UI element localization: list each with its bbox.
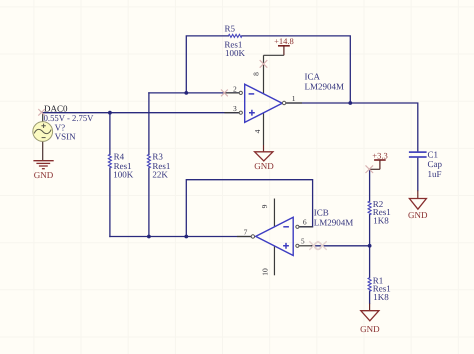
no-ERC marker +3.3 [366,165,374,173]
resistor R4 [108,154,111,168]
svg-text:DAC0: DAC0 [44,103,68,113]
svg-text:LM2904M: LM2904M [305,81,345,91]
pin 8 line [263,55,265,94]
svg-text:R5: R5 [225,24,236,34]
wire junction to R1 to GND [369,246,371,304]
wire R3 vertical branch [148,93,150,237]
power port +3.3 [370,150,388,169]
junction R4/DAC0 [108,111,112,115]
no-ERC markers pin 5 [309,241,326,250]
power stem to GND (C1) [417,191,419,199]
resistor R1 [368,278,371,292]
svg-text:ICA: ICA [305,72,321,82]
power stem to GND (R1) [369,304,371,311]
svg-text:7: 7 [244,227,248,236]
ground (earth) below VSIN [33,161,53,169]
svg-text:C1: C1 [428,150,439,160]
svg-text:GND: GND [408,210,428,220]
pin 1 stub [286,102,302,104]
wire bottom net to pin7 of ICB [110,236,251,238]
source V? VSIN body [33,113,53,161]
svg-text:VSIN: VSIN [55,132,77,142]
svg-text:22K: 22K [152,170,168,180]
ground (power) below C1 [409,199,426,210]
svg-text:100K: 100K [225,48,246,58]
svg-text:1K8: 1K8 [373,292,389,302]
power port +14.8 [264,36,294,56]
wire R5 left leg [186,36,228,93]
svg-text:GND: GND [34,170,54,180]
capacitor C1 [409,152,427,157]
pin 10 line [273,246,275,275]
ground (power) below R1 [361,311,379,321]
pin 5 stub [299,245,312,247]
op-amp ICB triangle [256,217,294,255]
pin 4 line [263,113,265,145]
svg-text:0.55V - 2.75V: 0.55V - 2.75V [44,113,94,123]
svg-text:1uF: 1uF [428,169,442,179]
svg-text:2: 2 [233,84,237,93]
pin 9 line [273,199,275,227]
no-ERC marker on source pin [38,109,45,116]
svg-text:3: 3 [233,104,237,113]
minus marking [249,93,255,95]
pin 1 tip circle [282,101,285,104]
svg-text:9: 9 [260,204,269,208]
resistor R2 [368,201,371,215]
no-ERC marker pin 2 [221,90,228,97]
svg-text:GND: GND [254,161,274,171]
junction R5/pin2 net [184,91,188,95]
svg-text:GND: GND [360,324,380,334]
resistor R5 [228,34,242,37]
junction dots [108,91,372,248]
wire DAC0 net: source to pin3 of ICA [43,112,240,114]
pin 7 tip circle [251,235,254,238]
svg-text:Cap: Cap [428,159,443,169]
svg-text:5: 5 [301,237,305,246]
junction feedback/bottom net [184,235,188,239]
pin 3 tip circle [239,111,242,114]
svg-text:4: 4 [253,129,262,133]
wire ICB feedback loop [186,180,312,237]
wire C1 to GND [417,157,419,190]
svg-text:10: 10 [261,268,270,276]
svg-text:1: 1 [292,94,296,103]
junction R2-R1/pin5 net [368,244,372,248]
pin 6 tip circle [296,225,299,228]
svg-text:1K8: 1K8 [373,215,389,225]
minus marking [283,226,289,228]
svg-text:LM2904M: LM2904M [314,217,354,227]
pin 6 stub [299,226,312,228]
junction R5/output net [348,101,352,105]
plus marking [283,243,289,249]
svg-text:+3.3: +3.3 [372,150,387,160]
plus marking [249,110,255,116]
svg-text:8: 8 [252,72,261,76]
wire R3 top to pin2 of ICA [149,92,239,94]
wire R5 right leg [242,36,350,103]
svg-text:ICB: ICB [314,208,329,218]
resistor R3 [147,154,150,168]
wire pin5 of ICB to junction [312,245,370,247]
pin 2 tip circle [239,91,242,94]
junction R3/bottom net [147,235,151,239]
svg-text:6: 6 [303,218,307,227]
svg-text:+14.8: +14.8 [274,36,294,46]
wire R4 vertical branch [109,113,111,237]
ground (power) below ICA pin4 [255,152,273,161]
pin 2 stub [224,92,239,94]
op-amp ICA triangle [245,84,283,122]
pin 3 stub [224,112,239,114]
svg-text:100K: 100K [113,170,134,180]
no-ERC marker pin 8 [260,60,268,68]
wire +3.3 to R2 to junction [369,169,371,246]
pin 5 tip circle [296,244,299,247]
pin 7 stub [237,236,251,238]
wire ICA output to C1 [286,103,418,152]
